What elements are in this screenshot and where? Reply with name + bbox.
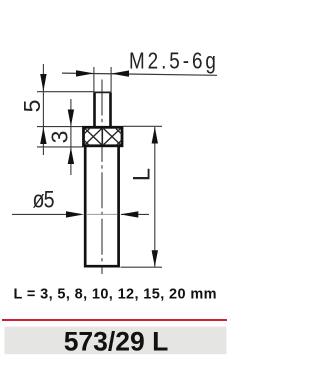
dia5 arrow right [120, 211, 138, 217]
dimension 5 line [42, 64, 44, 155]
dimension 3 line [70, 99, 72, 175]
collar outline [84, 127, 123, 146]
M2.5 arrow right [111, 70, 129, 76]
svg-text:ø5: ø5 [32, 186, 54, 213]
svg-text:3: 3 [46, 131, 72, 144]
dim 5 arrow down [40, 74, 46, 91]
svg-text:L: L [129, 168, 156, 181]
collar hatch corner stubs [84, 129, 122, 146]
svg-text:L = 3, 5, 8, 10, 12, 15, 20 mm: L = 3, 5, 8, 10, 12, 15, 20 mm [14, 286, 217, 302]
body outline [85, 146, 118, 266]
centerline [101, 80, 103, 275]
collar hatch center divider [102, 128, 104, 145]
dia5 leader left [12, 213, 68, 215]
extension line stud top [37, 91, 94, 93]
threaded stud outline [95, 93, 111, 128]
svg-text:5: 5 [19, 100, 45, 113]
extension line collar top left [37, 126, 83, 128]
dimension L line [154, 127, 156, 267]
M2.5 extension line right [110, 67, 112, 92]
dia5 dim line through body (faint) [86, 213, 118, 215]
L extension line top [123, 125, 162, 127]
part number box [5, 327, 227, 355]
dia5 arrow left [66, 211, 84, 217]
dimension M2.5-6g leader line [62, 73, 217, 75]
dia5 tail right [121, 213, 149, 215]
M2.5 extension line left [93, 67, 95, 92]
dim 3 arrow up [68, 148, 74, 165]
svg-text:573/29 L: 573/29 L [64, 327, 169, 357]
collar hatch left cell [85, 129, 102, 145]
dim 3 arrow down [68, 110, 74, 127]
extension line collar bottom left [37, 146, 83, 148]
collar hatch right cell [104, 129, 121, 145]
dim L arrow down [152, 250, 158, 266]
M2.5 arrow left [76, 70, 94, 76]
L extension line bottom [121, 266, 163, 268]
dim 5 arrow up [40, 127, 46, 144]
dim L arrow up [152, 127, 158, 144]
red separator line [2, 319, 227, 321]
